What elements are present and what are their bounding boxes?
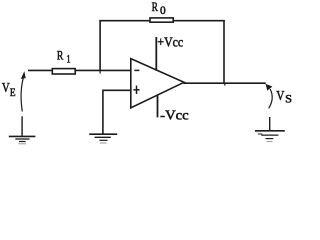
label R0 [152,0,166,17]
wire input VE to R1 and to op-amp inverting input [28,69,131,71]
svg-text:1: 1 [66,54,70,66]
arrow VE source [21,72,25,111]
svg-text:V: V [276,89,284,104]
ground (below VE) [9,116,36,141]
ground (below non-inverting input) [89,134,117,140]
scan smudges under grounds [19,132,273,144]
svg-text:E: E [10,87,16,99]
svg-text:V: V [2,80,10,95]
op-amp U1 [131,59,184,108]
label VE [2,80,16,99]
resistor R1 [52,69,75,74]
label R1 [57,48,71,65]
wire feedback right vertical [223,20,225,83]
op-amp minus input sign [134,69,139,71]
arrow VS output [266,85,272,109]
wire top feedback horizontal [99,20,225,22]
label VS [276,89,292,106]
resistor R0 [150,18,173,22]
svg-text:0: 0 [160,5,166,17]
node inverting input junction [99,70,101,73]
wire feedback left vertical [99,20,101,71]
op-amp plus input sign [133,86,139,94]
wire +Vcc stem [155,37,157,71]
svg-text:S: S [285,93,292,105]
svg-text:R: R [57,48,64,62]
svg-text:+Vcc: +Vcc [157,35,183,50]
svg-text:R: R [152,0,159,14]
node output junction [224,83,226,85]
wire -Vcc stem [157,95,159,118]
wire non-inverting input [103,90,131,134]
svg-text:-Vcc: -Vcc [160,108,189,123]
ground (below VS) [255,117,285,139]
wire output [184,82,266,84]
